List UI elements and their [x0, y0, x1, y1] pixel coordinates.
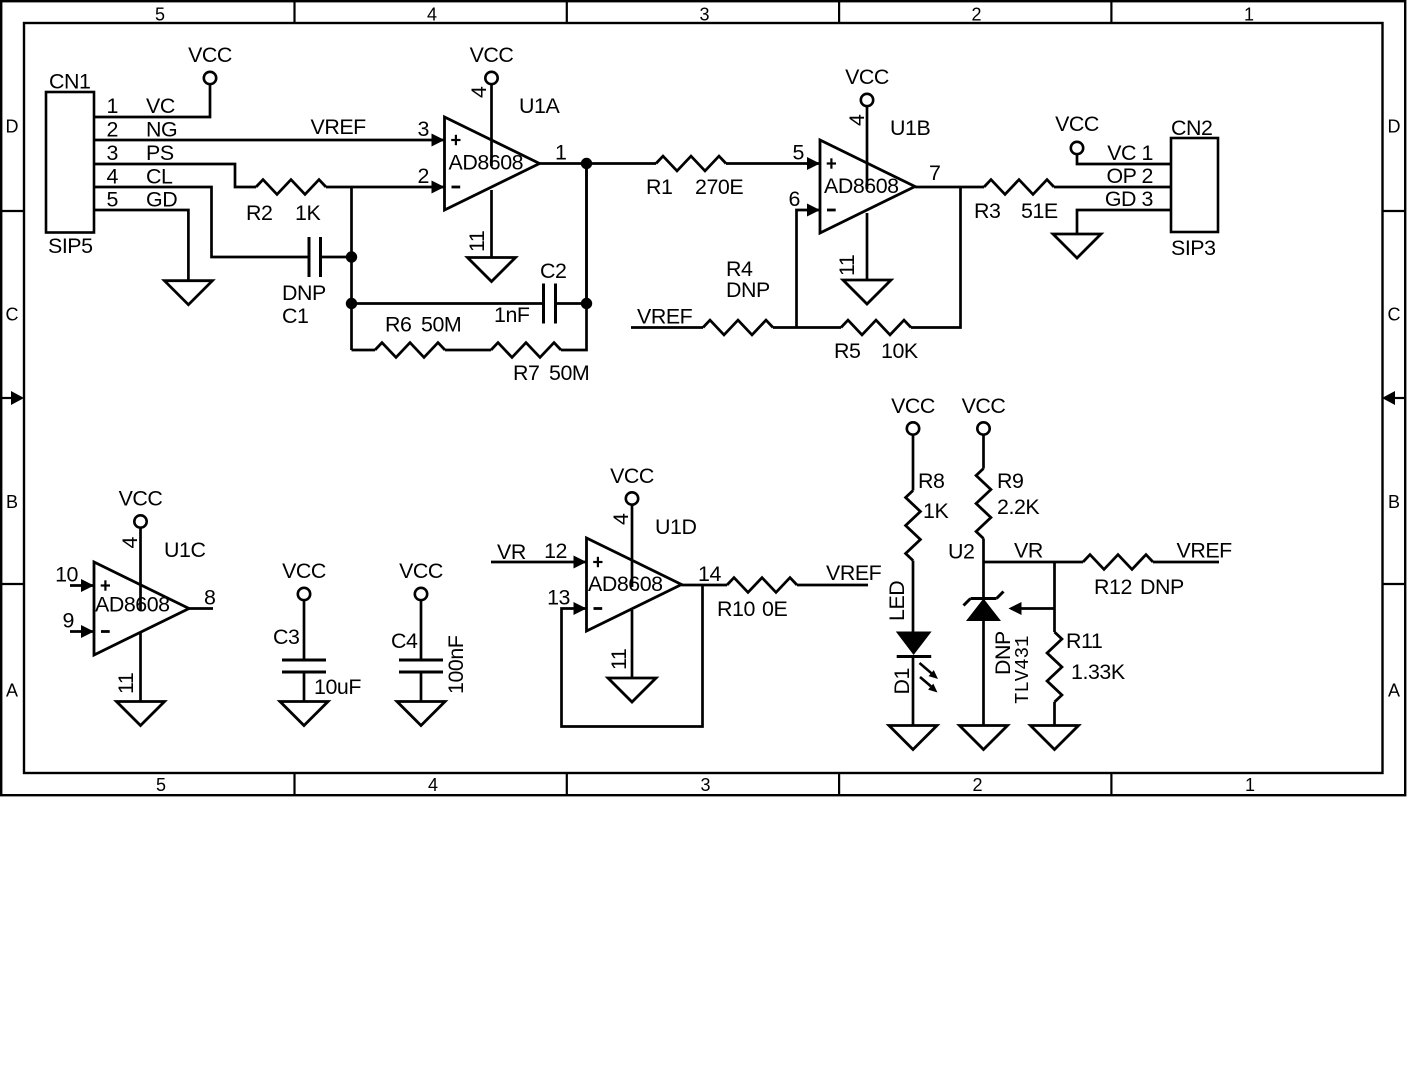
- svg-text:11: 11: [465, 231, 489, 252]
- svg-text:4: 4: [107, 165, 119, 189]
- svg-text:9: 9: [63, 609, 74, 633]
- svg-text:11: 11: [835, 255, 859, 276]
- svg-text:1: 1: [1244, 5, 1254, 25]
- power VCC at U1D: [610, 464, 654, 505]
- svg-text:TLV431: TLV431: [1012, 636, 1034, 704]
- svg-text:0E: 0E: [762, 597, 787, 621]
- U1C pin 4 wire: [139, 528, 142, 611]
- svg-text:LED: LED: [885, 581, 909, 621]
- svg-text:D: D: [1388, 117, 1401, 137]
- svg-text:VCC: VCC: [399, 559, 443, 583]
- wire R10 to VREF: [797, 584, 868, 587]
- resistor R4: [703, 257, 773, 335]
- svg-text:U1A: U1A: [519, 94, 560, 118]
- connector CN2: [1171, 116, 1218, 260]
- net label VREF at U1D output: [826, 561, 882, 585]
- svg-text:100nF: 100nF: [444, 635, 468, 694]
- svg-text:A: A: [6, 681, 18, 701]
- svg-text:CN1: CN1: [49, 70, 90, 94]
- U1D pin 14 number: [698, 562, 721, 586]
- U1D pin 11 number: [607, 649, 631, 670]
- capacitor C3: [273, 625, 361, 699]
- ground at U1C: [117, 702, 165, 726]
- svg-text:3: 3: [418, 117, 429, 141]
- power VCC at U1A: [470, 43, 514, 84]
- wire C2 row left: [352, 302, 544, 305]
- net label VR at U1D input: [497, 540, 526, 564]
- wire VR node row: [984, 561, 1084, 564]
- ground at U1A: [468, 258, 516, 282]
- op-amp U1B: [820, 116, 930, 233]
- svg-text:1K: 1K: [923, 499, 949, 523]
- svg-text:4: 4: [427, 5, 437, 25]
- U1D inverting input arrow: [574, 602, 587, 615]
- svg-text:C3: C3: [273, 625, 299, 649]
- svg-text:U1B: U1B: [890, 116, 930, 140]
- frame column dividers top: [295, 1, 1112, 23]
- ground at R11: [1031, 726, 1079, 750]
- wire R4 to R5: [773, 326, 841, 329]
- svg-text:SIP5: SIP5: [48, 234, 93, 258]
- svg-text:R7: R7: [513, 361, 539, 385]
- wire C3 to ground: [303, 672, 306, 702]
- svg-text:VCC: VCC: [610, 464, 654, 488]
- wire VCC to CN2 pin1: [1077, 154, 1171, 164]
- wire U1D feedback loop: [562, 585, 703, 727]
- U1D pin 4 wire: [631, 505, 634, 588]
- resistor R10: [717, 578, 797, 621]
- net label VREF at R4: [637, 305, 693, 329]
- wire U1A output node down to C2 row: [585, 164, 588, 304]
- svg-text:B: B: [1388, 492, 1400, 512]
- U1A pin 11 number: [465, 231, 489, 252]
- U1A pin 1 number: [555, 141, 566, 165]
- svg-text:U1D: U1D: [655, 515, 696, 539]
- wire CN1 pin1 to VCC: [94, 84, 210, 117]
- ground at CN1: [164, 281, 212, 305]
- net label U2: [948, 540, 974, 564]
- wire U1B output to R3: [915, 186, 984, 189]
- wire R6 lead left: [352, 349, 376, 352]
- CN1 pin 5 label GD: [107, 188, 178, 212]
- U1C noninverting input arrow: [81, 579, 94, 592]
- frame arrow left: [11, 391, 24, 405]
- wire R12 to VREF: [1153, 561, 1219, 564]
- wire VCC to C3: [303, 600, 306, 660]
- U1D noninverting input arrow: [574, 556, 587, 569]
- resistor R7: [491, 343, 589, 385]
- svg-text:SIP3: SIP3: [1171, 236, 1216, 260]
- resistor R9: [976, 469, 1040, 539]
- wire CN1 pin4 CL to C1: [94, 187, 309, 257]
- wire R9 to VR node: [982, 539, 985, 563]
- svg-text:VCC: VCC: [1055, 112, 1099, 136]
- svg-text:AD8608: AD8608: [449, 151, 524, 175]
- capacitor C1: [282, 237, 326, 328]
- svg-text:CL: CL: [146, 165, 173, 189]
- svg-text:GD 3: GD 3: [1105, 187, 1153, 211]
- U1B pin 5 number: [793, 141, 804, 165]
- svg-text:VR: VR: [1014, 539, 1043, 563]
- svg-text:6: 6: [789, 187, 800, 211]
- svg-text:12: 12: [544, 539, 567, 563]
- power VCC at CN1: [188, 43, 232, 84]
- U1B pin 11 wire: [866, 213, 869, 280]
- wire R6 to R7: [445, 349, 491, 352]
- svg-text:VREF: VREF: [311, 115, 367, 139]
- svg-text:3: 3: [700, 775, 710, 795]
- wire U1A output: [540, 162, 657, 165]
- junction dot node A: [346, 251, 357, 262]
- U1B inverting input arrow: [807, 204, 820, 217]
- U1B pin 4 wire: [866, 106, 869, 189]
- U1B pin 11 number: [835, 255, 859, 276]
- svg-text:A: A: [1388, 681, 1400, 701]
- svg-text:1: 1: [107, 94, 118, 118]
- resistor R1: [646, 156, 743, 199]
- svg-text:C: C: [1388, 305, 1401, 325]
- U1B pin 7 number: [929, 161, 940, 185]
- ground at C3: [280, 702, 328, 726]
- power VCC at U1B: [845, 65, 889, 106]
- svg-text:R9: R9: [997, 469, 1023, 493]
- svg-text:1: 1: [555, 141, 566, 165]
- svg-text:R2: R2: [246, 201, 272, 225]
- svg-text:7: 7: [929, 161, 940, 185]
- power VCC at U1C: [119, 487, 163, 528]
- U1B pin 4 number: [845, 114, 869, 126]
- U1A pin 4 wire: [490, 84, 493, 166]
- U1B pin 6 number: [789, 187, 800, 211]
- resistor R3: [974, 180, 1058, 223]
- U1A pin 11 wire: [490, 190, 493, 258]
- ground at U1B: [843, 280, 891, 304]
- U1C noninverting input stub: [70, 584, 94, 587]
- svg-text:VCC: VCC: [119, 487, 163, 511]
- connector CN1: [46, 70, 94, 259]
- svg-text:4: 4: [428, 775, 438, 795]
- svg-text:C4: C4: [391, 629, 418, 653]
- svg-text:U2: U2: [948, 540, 974, 564]
- svg-text:VCC: VCC: [470, 43, 514, 67]
- U1C pin 9 number: [63, 609, 74, 633]
- svg-text:VCC: VCC: [282, 559, 326, 583]
- wire C2 row right: [556, 302, 587, 305]
- capacitor C2: [494, 259, 566, 327]
- svg-text:PS: PS: [146, 141, 174, 165]
- svg-text:11: 11: [114, 673, 138, 694]
- U1D pin 11 wire: [631, 610, 634, 678]
- U2 reference input wire with arrow: [1009, 602, 1055, 615]
- svg-text:VCC: VCC: [891, 394, 935, 418]
- LED D1: [885, 581, 938, 695]
- wire VREF to R4: [631, 326, 703, 329]
- CN2 pin 1 label VC: [1107, 141, 1153, 165]
- resistor R11: [1047, 629, 1126, 702]
- svg-text:D: D: [6, 117, 19, 137]
- svg-text:R5: R5: [834, 339, 860, 363]
- wire CN1 pin5 GD to ground: [94, 210, 188, 281]
- svg-text:2: 2: [972, 775, 982, 795]
- svg-text:B: B: [6, 492, 18, 512]
- frame row labels left: [6, 117, 19, 701]
- svg-text:51E: 51E: [1021, 199, 1058, 223]
- net label VR: [1014, 539, 1043, 563]
- op-amp U1C: [94, 538, 205, 655]
- svg-text:VREF: VREF: [1177, 539, 1233, 563]
- svg-text:AD8608: AD8608: [588, 572, 663, 596]
- svg-text:DNP: DNP: [282, 281, 326, 305]
- CN1 pin 1 label VC: [107, 94, 175, 118]
- ground at U1D: [608, 678, 656, 702]
- U1A pin 2 number: [418, 164, 429, 188]
- power VCC at R8: [891, 394, 935, 435]
- svg-text:13: 13: [547, 586, 570, 610]
- svg-text:R3: R3: [974, 199, 1000, 223]
- U1D pin 4 number: [609, 513, 633, 525]
- U1D pin 13 number: [547, 586, 570, 610]
- frame zone labels bottom: [156, 775, 1255, 795]
- U1C pin 4 number: [118, 537, 142, 549]
- svg-text:NG: NG: [146, 118, 177, 142]
- CN1 pin 2 label NG: [107, 118, 178, 142]
- svg-text:OP 2: OP 2: [1106, 164, 1153, 188]
- border frame inner: [24, 23, 1383, 773]
- resistor R2: [246, 180, 326, 225]
- CN1 pin 3 label PS: [107, 141, 174, 165]
- wire U1D output to R10: [682, 584, 728, 587]
- junction dot node B: [346, 298, 357, 309]
- wire R3 to CN2 pin2: [1054, 186, 1171, 189]
- svg-text:5: 5: [155, 5, 165, 25]
- CN2 pin 2 label OP: [1106, 164, 1153, 188]
- wire R5 up to U1B output: [911, 187, 961, 328]
- resistor R12: [1083, 555, 1184, 599]
- svg-text:270E: 270E: [695, 175, 743, 199]
- svg-text:2.2K: 2.2K: [997, 495, 1040, 519]
- svg-text:AD8608: AD8608: [95, 593, 170, 617]
- svg-text:VREF: VREF: [826, 561, 882, 585]
- svg-text:1: 1: [1245, 775, 1255, 795]
- frame row dividers left: [1, 211, 24, 584]
- svg-text:5: 5: [107, 188, 118, 212]
- svg-text:1.33K: 1.33K: [1071, 660, 1126, 684]
- svg-text:C2: C2: [540, 259, 566, 283]
- frame column dividers bottom: [295, 773, 1112, 795]
- svg-text:VR: VR: [497, 540, 526, 564]
- frame zone labels top: [155, 5, 1254, 25]
- svg-text:50M: 50M: [421, 313, 461, 337]
- svg-text:VC 1: VC 1: [1107, 141, 1153, 165]
- svg-text:1nF: 1nF: [494, 303, 530, 327]
- wire CN1 pin2 to U1A noninverting input, net VREF: [94, 139, 445, 142]
- svg-text:8: 8: [204, 586, 215, 610]
- wire R2 to U1A inverting input: [326, 186, 445, 189]
- power VCC at R9: [962, 394, 1006, 435]
- U1A pin 3 number: [418, 117, 429, 141]
- U1C pin 11 number: [114, 673, 138, 694]
- svg-text:4: 4: [609, 513, 633, 525]
- svg-text:1K: 1K: [295, 201, 321, 225]
- junction dot U1A output: [581, 158, 592, 169]
- ground at CN2: [1053, 234, 1101, 258]
- U1A noninverting input arrow: [432, 134, 445, 147]
- svg-text:R8: R8: [918, 469, 944, 493]
- svg-text:R6: R6: [385, 313, 411, 337]
- op-amp U1A: [445, 94, 561, 210]
- wire U1B inverting stub: [797, 210, 821, 328]
- power VCC at CN2: [1055, 112, 1099, 154]
- svg-text:4: 4: [467, 86, 491, 98]
- wire R7 lead right up to output node: [561, 164, 587, 351]
- wire vertical inverting net down from R2 row: [350, 187, 353, 350]
- resistor R5: [834, 320, 919, 363]
- U1C inverting input stub: [70, 630, 94, 633]
- capacitor C4: [391, 629, 468, 694]
- wire CN1 pin3 PS to R2: [94, 164, 256, 187]
- wire C4 to ground: [420, 672, 423, 702]
- svg-text:R1: R1: [646, 175, 672, 199]
- U1A pin 4 number: [467, 86, 491, 98]
- power VCC at C4: [399, 559, 443, 600]
- frame row dividers right: [1382, 211, 1405, 584]
- svg-text:50M: 50M: [549, 361, 589, 385]
- svg-text:VCC: VCC: [845, 65, 889, 89]
- CN1 pin 4 label CL: [107, 165, 173, 189]
- svg-text:2: 2: [971, 5, 981, 25]
- wire VCC to R8: [912, 434, 915, 490]
- svg-text:5: 5: [793, 141, 804, 165]
- net label VREF right: [1177, 539, 1233, 563]
- svg-text:10uF: 10uF: [314, 675, 361, 699]
- shunt regulator U2 TLV431: [964, 562, 1035, 726]
- frame arrow right: [1382, 391, 1395, 405]
- svg-text:C1: C1: [282, 304, 308, 328]
- wire R11 to ground: [1053, 702, 1056, 726]
- svg-text:VCC: VCC: [962, 394, 1006, 418]
- svg-text:14: 14: [698, 562, 721, 586]
- ground at C4: [397, 702, 445, 726]
- svg-text:DNP: DNP: [1140, 575, 1184, 599]
- svg-text:4: 4: [118, 537, 142, 549]
- wire VCC to R9: [982, 434, 985, 468]
- border frame outer: [1, 1, 1405, 795]
- wire VR to U1D noninverting input: [491, 561, 587, 564]
- wire CN2 pin3 GD to ground: [1077, 210, 1171, 234]
- svg-text:VCC: VCC: [188, 43, 232, 67]
- svg-text:11: 11: [607, 649, 631, 670]
- svg-text:R10: R10: [717, 597, 755, 621]
- U1B noninverting input arrow: [807, 157, 820, 170]
- resistor R8: [906, 469, 950, 561]
- svg-text:DNP: DNP: [726, 278, 770, 302]
- svg-text:R11: R11: [1066, 629, 1102, 653]
- svg-text:U1C: U1C: [164, 538, 205, 562]
- svg-text:2: 2: [418, 164, 429, 188]
- svg-text:VREF: VREF: [637, 305, 693, 329]
- svg-text:VC: VC: [146, 94, 175, 118]
- svg-text:C: C: [6, 305, 19, 325]
- ground at U2: [960, 726, 1008, 750]
- ground at D1: [889, 726, 937, 750]
- svg-text:AD8608: AD8608: [824, 174, 899, 198]
- U1D pin 12 number: [544, 539, 567, 563]
- svg-text:5: 5: [156, 775, 166, 795]
- svg-text:3: 3: [107, 141, 118, 165]
- wire VCC to C4: [420, 600, 423, 660]
- U1C pin 10 number: [55, 563, 78, 587]
- svg-text:4: 4: [845, 114, 869, 126]
- svg-text:10K: 10K: [881, 339, 919, 363]
- power VCC at C3: [282, 559, 326, 600]
- frame row labels right: [1388, 117, 1401, 701]
- svg-text:CN2: CN2: [1171, 116, 1212, 140]
- wire LED to ground: [912, 657, 915, 726]
- svg-text:3: 3: [699, 5, 709, 25]
- wire R8 to LED D1: [912, 561, 915, 632]
- U1A inverting input arrow: [432, 181, 445, 194]
- U1C pin 8 number: [204, 586, 215, 610]
- wire R1 to U1B noninverting input: [726, 162, 820, 165]
- svg-text:D1: D1: [890, 668, 914, 694]
- U1C output stub: [189, 607, 213, 610]
- svg-text:R12: R12: [1094, 575, 1132, 599]
- resistor R6: [375, 313, 461, 358]
- junction dot node C: [581, 298, 592, 309]
- U1C pin 11 wire: [139, 633, 142, 702]
- net label VREF: [311, 115, 367, 139]
- svg-text:2: 2: [107, 118, 118, 142]
- svg-text:10: 10: [55, 563, 78, 587]
- CN2 pin 3 label GD: [1105, 187, 1153, 211]
- U1C inverting input arrow: [81, 625, 94, 638]
- wire VR node down to R11: [1053, 562, 1056, 632]
- wire C1 to node A junction: [321, 256, 352, 259]
- op-amp U1D: [587, 515, 697, 631]
- svg-text:GD: GD: [146, 188, 177, 212]
